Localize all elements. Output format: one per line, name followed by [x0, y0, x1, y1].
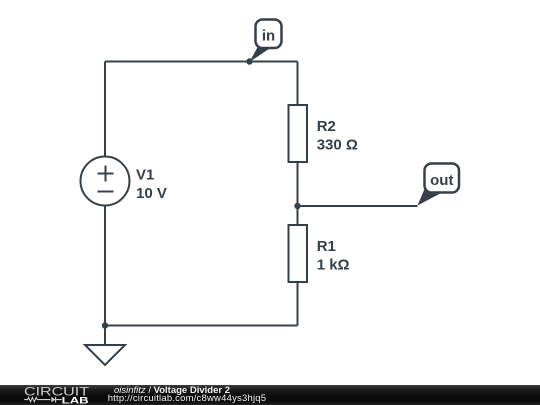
node mid-dot	[294, 203, 300, 209]
ground	[104, 326, 106, 346]
svg-text:330 Ω: 330 Ω	[317, 137, 358, 154]
wire right vertical middle	[297, 162, 299, 225]
wire left vertical upper	[104, 62, 106, 157]
node gnd-dot	[102, 322, 108, 328]
wire out horizontal	[298, 205, 418, 207]
svg-text:out: out	[430, 172, 453, 189]
footer text line1	[114, 386, 230, 396]
flag out	[418, 164, 460, 206]
svg-text:R2: R2	[317, 118, 336, 135]
svg-text:LAB: LAB	[62, 395, 89, 405]
footer bar	[0, 385, 540, 405]
svg-text:1 kΩ: 1 kΩ	[317, 257, 350, 274]
node in-dot	[246, 58, 252, 64]
footer text line2	[108, 394, 267, 404]
voltage source V1	[81, 157, 130, 206]
svg-text:in: in	[262, 28, 275, 45]
wire right vertical upper	[297, 62, 299, 106]
flag in	[250, 20, 282, 63]
svg-text:V1: V1	[136, 167, 154, 184]
svg-text:R1: R1	[317, 238, 336, 255]
wire right vertical lower	[297, 282, 299, 326]
wire top horizontal	[105, 61, 298, 63]
resistor R1	[289, 225, 308, 282]
wire left vertical lower	[104, 206, 106, 326]
wire bottom horizontal	[105, 325, 298, 327]
resistor R2	[289, 105, 308, 162]
circuitlab logo	[20, 385, 95, 405]
svg-text:10 V: 10 V	[136, 185, 167, 202]
